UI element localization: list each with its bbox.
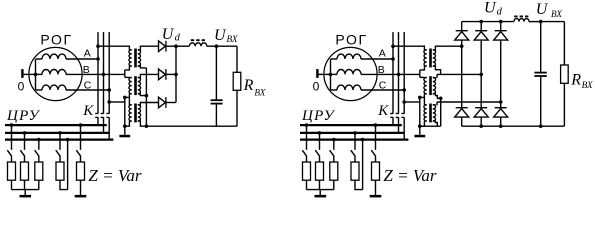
load5 bottom wire xyxy=(375,180,377,195)
node neutral T2 xyxy=(145,94,149,98)
wire phase C xyxy=(361,89,404,91)
diode VD1 stub xyxy=(461,22,463,31)
svg-text:ВХ: ВХ xyxy=(582,80,593,90)
wire Ubx to Rbx xyxy=(541,21,565,23)
diode VD3 anode wire xyxy=(500,40,502,102)
svg-text:ЦРУ: ЦРУ xyxy=(6,108,41,124)
switch K contact lower tick 3 xyxy=(106,116,109,118)
bus line 2 upper xyxy=(398,32,400,114)
node C-tap xyxy=(107,100,111,104)
svg-text:С: С xyxy=(84,80,92,92)
transformer T3 primary winding xyxy=(424,105,427,122)
feeder switch xyxy=(76,150,80,156)
svg-text:Z = Var: Z = Var xyxy=(383,166,436,185)
ground bus wire xyxy=(12,189,39,191)
feeder wire upper xyxy=(38,140,40,150)
svg-text:С: С xyxy=(379,80,387,92)
load resistor Z xyxy=(56,162,64,180)
ground bar transformer xyxy=(414,135,425,138)
node B-bus xyxy=(397,73,401,77)
feeder switch xyxy=(330,150,334,156)
load resistor Z xyxy=(330,162,338,180)
wire phase A xyxy=(361,58,393,60)
wire T3 sec bottom jog xyxy=(435,121,437,126)
wire T2 sec bottom jog xyxy=(435,94,440,98)
diode VD3 cathode wire xyxy=(166,102,176,104)
diode VD1 cathode wire xyxy=(166,45,176,47)
generator phase winding C xyxy=(36,89,43,91)
node return line xyxy=(361,138,365,142)
switch K contact lower tick 1 xyxy=(390,116,393,118)
feeder switch xyxy=(7,150,11,156)
transformer T2 secondary winding xyxy=(138,77,141,94)
feeder switch xyxy=(302,150,306,156)
wire T2 sec bottom to neutral xyxy=(140,94,146,96)
capacitor C plates xyxy=(534,72,546,74)
feeder wire lower xyxy=(24,156,26,162)
bus line 3 lower xyxy=(108,117,110,139)
wire T1 sec bottom to neutral xyxy=(140,66,146,68)
node b-leg2 xyxy=(479,73,483,77)
transformer T1 secondary winding xyxy=(433,50,436,66)
node Ubx xyxy=(215,44,219,48)
transformer T1 primary winding xyxy=(424,50,427,66)
ground drop xyxy=(24,190,26,196)
wire c-node link xyxy=(420,96,425,98)
neutral lead wire xyxy=(23,73,36,75)
wire T3 bottom to ground line xyxy=(420,121,425,126)
svg-text:U: U xyxy=(484,0,497,16)
wire T1 sec bottom jog xyxy=(435,66,440,74)
load resistor Z xyxy=(351,162,359,180)
node top rail leg3 xyxy=(499,20,503,24)
transformer T2 primary winding xyxy=(424,77,427,94)
feeder wire upper xyxy=(24,133,26,150)
wire T2 bottom to T3 top lead xyxy=(128,94,130,105)
node cathode d2 xyxy=(174,73,178,77)
load bottom wire xyxy=(24,180,26,189)
bridge top rail xyxy=(462,21,514,23)
wire T1 sec top to diode xyxy=(140,46,158,50)
diode VD4 xyxy=(456,107,468,109)
ground bar 2 xyxy=(370,195,382,198)
resistor Rbx xyxy=(233,72,241,90)
svg-text:А: А xyxy=(379,47,386,59)
bus line 2 lower xyxy=(398,117,400,133)
wire T2 sec top stub xyxy=(436,74,438,78)
node feeder xyxy=(79,123,83,127)
wire Rbx upper xyxy=(563,22,565,65)
bus line 3 upper xyxy=(108,32,110,114)
generator phase winding B xyxy=(36,73,43,75)
node c primary xyxy=(418,96,422,100)
switch K contact lower tick 2 xyxy=(101,116,104,118)
diode VD2 xyxy=(159,69,166,80)
bus bar 2 xyxy=(300,132,404,134)
generator phase winding C xyxy=(331,89,338,91)
node T3 bottom xyxy=(123,124,127,128)
generator phase winding B xyxy=(331,73,338,75)
wire choke to Ubx xyxy=(529,21,541,23)
feeder wire lower xyxy=(38,156,40,162)
return line xyxy=(67,140,69,190)
load resistor Z xyxy=(8,162,16,180)
node gen common xyxy=(329,73,333,77)
transformer T3 secondary winding xyxy=(433,105,436,122)
load4 bottom wire xyxy=(60,180,68,189)
node B-bus xyxy=(102,73,106,77)
choke core dashes xyxy=(514,15,529,17)
cathode bus vertical xyxy=(175,46,177,102)
diode VD4 anode wire xyxy=(461,117,463,126)
bridge leg 1 mid xyxy=(461,46,463,107)
node a-leg1 xyxy=(460,44,464,48)
diode VD2 xyxy=(475,30,487,32)
resistor Rbx xyxy=(561,65,569,83)
svg-text:ВХ: ВХ xyxy=(254,87,265,97)
feeder wire upper xyxy=(375,125,377,150)
wire b to leg2 xyxy=(437,73,481,75)
capacitor wire lower xyxy=(215,104,217,126)
choke core dashes xyxy=(191,39,206,41)
bus line 2 lower xyxy=(103,117,105,133)
switch K contact lower tick 2 xyxy=(396,116,399,118)
generator phase winding A xyxy=(331,58,338,60)
diode VD5 anode wire xyxy=(480,117,482,126)
feeder switch xyxy=(20,150,24,156)
node feeder xyxy=(58,131,62,135)
node A-tap xyxy=(391,44,395,48)
feeder switch xyxy=(315,150,319,156)
load4 bottom wire xyxy=(355,180,363,189)
node c-sec xyxy=(439,97,443,101)
terminal 0 bar xyxy=(21,69,23,78)
return line xyxy=(362,140,364,190)
feeder wire lower xyxy=(80,156,82,162)
bottom rail xyxy=(462,125,565,127)
generator stator circle xyxy=(29,47,82,100)
svg-text:U: U xyxy=(214,27,227,44)
wire T3 sec top stub xyxy=(436,102,438,105)
node feeder xyxy=(10,123,14,127)
bus line 3 lower xyxy=(403,117,405,139)
bus bar 2 xyxy=(5,132,109,134)
winding common vertical xyxy=(330,59,332,90)
ground bar 2 xyxy=(75,195,87,198)
switch K contact lower tick 1 xyxy=(95,116,98,118)
load bottom wire xyxy=(11,180,13,189)
node A-tap xyxy=(96,44,100,48)
transformer T3 primary winding xyxy=(129,105,132,122)
capacitor wire upper xyxy=(540,22,542,73)
switch K contact upper tick 1 xyxy=(390,113,393,115)
node C-bus xyxy=(402,88,406,92)
feeder wire upper xyxy=(11,125,13,150)
bus line 1 lower xyxy=(97,117,99,125)
node c-leg3 xyxy=(499,100,503,104)
transformer T1 core xyxy=(134,49,137,68)
feeder wire lower xyxy=(11,156,13,162)
wire T1 bottom to b-link xyxy=(125,66,130,70)
capacitor wire upper xyxy=(215,46,217,100)
wire b-link to T2 top xyxy=(420,76,425,78)
wire b-link vertical xyxy=(419,70,421,78)
terminal 0 bar xyxy=(316,69,318,78)
wire phase C xyxy=(66,89,109,91)
diode VD5 xyxy=(475,107,487,109)
feeder switch xyxy=(56,150,60,156)
feeder wire upper xyxy=(306,125,308,150)
diode VD1 xyxy=(456,30,468,32)
bridge leg 3 mid xyxy=(500,102,502,108)
load bottom wire xyxy=(333,180,335,189)
node feeder xyxy=(374,123,378,127)
bus line 1 upper xyxy=(97,32,99,114)
wire phase B xyxy=(361,73,420,75)
load resistor Z xyxy=(372,162,380,180)
diode VD3 stub xyxy=(500,22,502,31)
node Ubx xyxy=(539,20,543,24)
svg-text:К: К xyxy=(377,103,389,119)
wire choke to Ubx xyxy=(207,45,217,47)
load5 bottom wire xyxy=(80,180,82,195)
diode VD3 xyxy=(495,30,507,32)
switch K contact upper tick 3 xyxy=(106,113,109,115)
ground bar transformer xyxy=(119,135,130,138)
wire c-sec vertical xyxy=(440,98,442,126)
node bottom leg2 xyxy=(479,124,483,128)
wire T3 bottom to ground line xyxy=(125,121,130,126)
choke L xyxy=(514,19,529,22)
feeder wire lower xyxy=(354,156,356,162)
node gen common xyxy=(34,73,38,77)
svg-text:РОГ: РОГ xyxy=(40,31,72,47)
capacitor C plates xyxy=(211,99,223,101)
svg-text:d: d xyxy=(497,6,503,17)
node C-tap xyxy=(402,100,406,104)
node A-bus xyxy=(391,57,395,61)
wire Rbx upper xyxy=(236,46,238,72)
bridge leg 2 mid xyxy=(480,74,482,107)
wire ground vertical xyxy=(419,97,421,134)
svg-text:В: В xyxy=(83,64,90,76)
feeder wire upper xyxy=(59,133,61,150)
diode VD1 anode wire xyxy=(461,40,463,46)
load bottom wire xyxy=(306,180,308,189)
node neutral bottom xyxy=(145,124,149,128)
bus bar 3 xyxy=(300,139,408,141)
svg-text:ВХ: ВХ xyxy=(551,9,562,19)
svg-text:U: U xyxy=(162,26,175,43)
load resistor Z xyxy=(35,162,43,180)
wire A tap to T1 xyxy=(393,46,424,50)
diode VD6 anode wire xyxy=(500,117,502,126)
wire C tap to ground vertical xyxy=(404,101,420,103)
ground bar xyxy=(315,195,327,198)
node T3 bottom xyxy=(418,124,422,128)
feeder switch xyxy=(371,150,375,156)
wire Rbx lower xyxy=(563,83,565,126)
transformer T3 secondary winding xyxy=(138,105,141,122)
wire c to leg3 xyxy=(437,101,501,103)
node feeder xyxy=(318,131,322,135)
node Ud xyxy=(174,44,178,48)
transformer T2 core xyxy=(134,76,137,95)
wire Rbx lower xyxy=(236,90,238,126)
switch K contact upper tick 2 xyxy=(396,113,399,115)
svg-text:ЦРУ: ЦРУ xyxy=(301,108,336,124)
load resistor Z xyxy=(303,162,311,180)
switch K contact lower tick 3 xyxy=(401,116,404,118)
wire phase B xyxy=(66,73,125,75)
ground drop xyxy=(319,190,321,196)
wire T3 sec top to diode xyxy=(140,103,158,105)
node feeder xyxy=(305,123,309,127)
bus line 1 upper xyxy=(392,32,394,114)
diode VD6 xyxy=(495,107,507,109)
diode VD2 anode wire xyxy=(480,40,482,74)
wire b-link to T2 top xyxy=(125,76,130,78)
transformer T1 core xyxy=(429,49,432,68)
diode VD1 xyxy=(159,41,166,52)
feeder switch xyxy=(351,150,355,156)
choke L xyxy=(189,43,206,46)
svg-text:В: В xyxy=(378,64,385,76)
wire Ubx to Rbx xyxy=(216,45,237,47)
feeder wire lower xyxy=(319,156,321,162)
feeder wire upper xyxy=(333,140,335,150)
transformer T2 secondary winding xyxy=(433,77,436,94)
ground bar xyxy=(20,195,32,198)
bus line 1 lower xyxy=(392,117,394,125)
wire T2 bottom to T3 top lead xyxy=(423,94,425,105)
node c primary xyxy=(123,96,127,100)
svg-text:0: 0 xyxy=(18,80,25,94)
bus bar 1 xyxy=(300,124,402,126)
diode VD2 cathode wire xyxy=(166,73,176,75)
ground bus wire xyxy=(307,189,334,191)
wire T1 bottom to b-link xyxy=(420,66,425,70)
node top rail leg2 xyxy=(479,20,483,24)
diode VD3 xyxy=(159,97,166,108)
transformer T1 secondary winding xyxy=(138,50,141,66)
wire c-node link xyxy=(125,96,130,98)
wire T1 sec top to leg1 xyxy=(435,46,461,50)
node feeder xyxy=(353,131,357,135)
switch K contact upper tick 1 xyxy=(95,113,98,115)
svg-text:R: R xyxy=(243,77,254,94)
feeder wire lower xyxy=(333,156,335,162)
transformer T3 core xyxy=(134,104,137,123)
feeder switch xyxy=(35,150,39,156)
svg-text:ВХ: ВХ xyxy=(227,34,238,44)
svg-text:РОГ: РОГ xyxy=(335,31,367,47)
load bottom wire xyxy=(38,180,40,189)
svg-text:0: 0 xyxy=(313,80,320,94)
wire Ud to choke xyxy=(176,45,189,47)
wire C tap to ground vertical xyxy=(109,101,125,103)
neutral vertical xyxy=(145,68,147,126)
wire sec ground link xyxy=(420,125,441,127)
node feeder xyxy=(37,138,41,142)
svg-text:R: R xyxy=(570,72,581,89)
feeder wire lower xyxy=(306,156,308,162)
node feeder xyxy=(23,131,27,135)
generator stator circle xyxy=(324,47,377,100)
wire T3 sec bottom to neutral xyxy=(140,121,146,126)
svg-text:d: d xyxy=(175,33,181,44)
load resistor Z xyxy=(77,162,85,180)
load resistor Z xyxy=(316,162,324,180)
bus line 2 upper xyxy=(103,32,105,114)
load resistor Z xyxy=(21,162,29,180)
node C-bus xyxy=(107,88,111,92)
svg-text:Z = Var: Z = Var xyxy=(88,166,141,185)
feeder wire upper xyxy=(80,125,82,150)
bus bar 1 xyxy=(5,124,107,126)
wire b-link vertical xyxy=(124,70,126,78)
capacitor wire lower xyxy=(540,76,542,126)
node bottom cap xyxy=(539,124,543,128)
transformer T1 primary winding xyxy=(129,50,132,66)
transformer T2 core xyxy=(429,76,432,95)
svg-text:К: К xyxy=(82,103,94,119)
feeder wire upper xyxy=(319,133,321,150)
feeder wire lower xyxy=(59,156,61,162)
feeder wire upper xyxy=(354,133,356,150)
bus line 3 upper xyxy=(403,32,405,114)
switch K contact upper tick 3 xyxy=(401,113,404,115)
svg-text:А: А xyxy=(84,47,91,59)
switch K contact upper tick 2 xyxy=(101,113,104,115)
transformer T3 core xyxy=(429,104,432,123)
wire ground vertical xyxy=(124,97,126,134)
bus bar 3 xyxy=(5,139,113,141)
node return line xyxy=(66,138,70,142)
svg-text:U: U xyxy=(536,1,549,18)
wire A tap to T1 xyxy=(98,46,129,50)
bottom rail xyxy=(146,125,237,127)
load bottom wire xyxy=(319,180,321,189)
feeder wire lower xyxy=(375,156,377,162)
diode VD2 stub xyxy=(480,22,482,31)
node bottom leg3 xyxy=(499,124,503,128)
node feeder xyxy=(332,138,336,142)
winding common vertical xyxy=(35,59,37,90)
transformer T2 primary winding xyxy=(129,77,132,94)
generator phase winding A xyxy=(36,58,43,60)
wire T2 sec top to diode xyxy=(140,74,158,77)
wire phase A xyxy=(66,58,98,60)
neutral lead wire xyxy=(318,73,331,75)
node A-bus xyxy=(96,57,100,61)
